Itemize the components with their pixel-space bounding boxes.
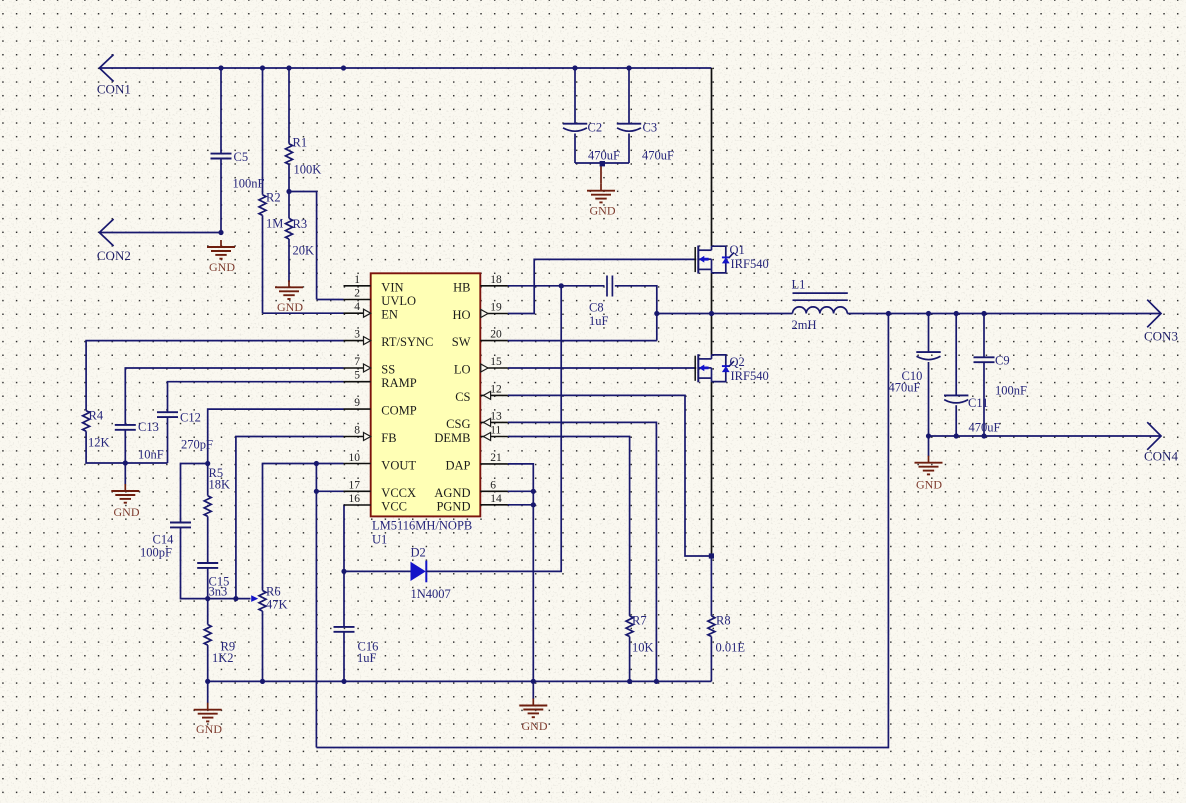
node DAP PGND bbox=[531, 502, 536, 507]
resistor R5 bbox=[204, 496, 211, 517]
svg-text:Q2: Q2 bbox=[730, 355, 745, 369]
svg-text:RAMP: RAMP bbox=[381, 376, 416, 390]
resistor R8 bbox=[708, 616, 715, 637]
svg-text:R1: R1 bbox=[293, 136, 308, 150]
node Q2 source R8 square bbox=[709, 553, 714, 558]
svg-text:10nF: 10nF bbox=[138, 448, 164, 462]
pin arrow SS bbox=[364, 364, 371, 372]
wire D2 cathode to HB bbox=[426, 286, 561, 572]
svg-text:7: 7 bbox=[354, 356, 360, 368]
resistor R9 bbox=[204, 625, 211, 646]
svg-text:DEMB: DEMB bbox=[434, 431, 470, 445]
capacitor C11 bbox=[944, 395, 968, 403]
port CON2 bbox=[99, 219, 113, 246]
svg-text:470uF: 470uF bbox=[642, 149, 674, 163]
port CON4 bbox=[1147, 422, 1161, 450]
wire DEMB net bbox=[508, 437, 630, 616]
wire RAMP net bbox=[168, 382, 344, 413]
pin names U1 bbox=[381, 280, 470, 513]
svg-text:15: 15 bbox=[490, 356, 502, 368]
svg-text:3n3: 3n3 bbox=[209, 585, 228, 599]
svg-text:19: 19 bbox=[490, 302, 502, 314]
node top rail junctions bbox=[218, 65, 223, 70]
capacitor C10 top wire bbox=[928, 314, 930, 353]
pin 17 VCCX bbox=[344, 490, 371, 492]
wire R6 bottom bbox=[262, 611, 264, 681]
svg-text:C14: C14 bbox=[153, 533, 175, 547]
svg-text:16: 16 bbox=[349, 493, 361, 505]
wire D2 anode bbox=[344, 570, 411, 572]
wire GND stem out bbox=[928, 436, 930, 456]
svg-text:GND: GND bbox=[196, 722, 222, 736]
svg-text:470uF: 470uF bbox=[889, 381, 921, 395]
capacitor C3 top wire bbox=[628, 68, 630, 124]
capacitor C9 bbox=[974, 357, 995, 362]
pin 4 EN bbox=[344, 312, 371, 314]
wiper arrow R6 bbox=[251, 595, 258, 602]
node rail AGND bbox=[531, 679, 536, 684]
svg-text:HO: HO bbox=[452, 308, 470, 322]
wire sense bottom bbox=[316, 314, 888, 748]
svg-text:R7: R7 bbox=[632, 614, 647, 628]
node GND left bbox=[123, 460, 128, 465]
svg-text:10: 10 bbox=[349, 452, 361, 464]
svg-text:R6: R6 bbox=[266, 585, 281, 599]
node C11 rail bbox=[954, 311, 959, 316]
pin 7 SS bbox=[344, 367, 371, 369]
svg-text:EN: EN bbox=[381, 308, 398, 322]
capacitor C12 bbox=[157, 412, 178, 417]
svg-text:20K: 20K bbox=[293, 244, 315, 258]
svg-text:GND: GND bbox=[209, 260, 235, 274]
wire COMP net bbox=[208, 409, 344, 463]
pin 13 CSG bbox=[480, 421, 508, 423]
pin arrow FB bbox=[364, 433, 371, 441]
svg-text:1N4007: 1N4007 bbox=[411, 587, 451, 601]
svg-text:R8: R8 bbox=[716, 614, 731, 628]
capacitor C14 bbox=[170, 523, 191, 528]
svg-text:9: 9 bbox=[354, 397, 360, 409]
svg-text:20: 20 bbox=[490, 329, 502, 341]
capacitor C10 bbox=[916, 352, 940, 360]
wire R3 bottom to GND bbox=[288, 239, 290, 282]
node rail CSG bbox=[654, 679, 659, 684]
svg-text:3: 3 bbox=[354, 329, 360, 341]
svg-text:47K: 47K bbox=[266, 598, 288, 612]
pin 9 COMP bbox=[344, 408, 371, 410]
svg-text:C5: C5 bbox=[234, 150, 249, 164]
svg-text:14: 14 bbox=[490, 493, 502, 505]
capacitor C16 bbox=[334, 627, 355, 632]
wire C11 bottom bbox=[955, 405, 957, 436]
pin 1 VIN bbox=[344, 285, 371, 287]
wire C9 bottom bbox=[983, 362, 985, 436]
node CON4 C10 bbox=[926, 433, 931, 438]
wire CSG net bbox=[508, 422, 657, 681]
svg-text:L1: L1 bbox=[792, 278, 806, 292]
wire GND left stem bbox=[124, 463, 126, 485]
transistor Q2 IRF540 bbox=[695, 354, 734, 382]
node sense rail bbox=[886, 311, 891, 316]
svg-text:21: 21 bbox=[490, 452, 502, 464]
svg-text:11: 11 bbox=[490, 425, 501, 437]
wire C3 bottom bbox=[628, 134, 630, 164]
resistor R6 potentiometer bbox=[259, 591, 266, 612]
wire SS net bbox=[125, 368, 343, 425]
wire VCC net down bbox=[343, 505, 346, 571]
svg-text:100nF: 100nF bbox=[233, 177, 265, 191]
svg-text:CSG: CSG bbox=[446, 417, 470, 431]
svg-text:1uF: 1uF bbox=[357, 651, 377, 665]
svg-text:18K: 18K bbox=[209, 478, 231, 492]
svg-text:CS: CS bbox=[455, 390, 470, 404]
svg-text:SW: SW bbox=[452, 335, 471, 349]
svg-text:C13: C13 bbox=[138, 420, 159, 434]
node rail R9 bbox=[205, 679, 210, 684]
svg-text:12: 12 bbox=[490, 383, 502, 395]
svg-text:1: 1 bbox=[354, 274, 360, 286]
svg-text:PGND: PGND bbox=[436, 499, 470, 513]
wire RT/SYNC net bbox=[86, 341, 343, 411]
wire EN net bbox=[263, 312, 344, 314]
wire R8 top bbox=[710, 556, 712, 616]
svg-text:RT/SYNC: RT/SYNC bbox=[381, 335, 433, 349]
capacitor C2 top wire bbox=[574, 68, 576, 124]
ground G7 output bbox=[915, 456, 943, 475]
pin arrow RT/SYNC bbox=[364, 337, 371, 345]
node FB C15 bbox=[205, 596, 210, 601]
capacitor C13 bbox=[115, 425, 136, 430]
svg-text:D2: D2 bbox=[411, 546, 426, 560]
wire VCCX net bbox=[316, 490, 343, 492]
wire R3 top bbox=[288, 192, 290, 219]
svg-text:GND: GND bbox=[522, 719, 548, 733]
resistor R1 bbox=[286, 144, 293, 165]
wire C14 bottom bbox=[181, 527, 251, 598]
node R1 R3 junction bbox=[286, 189, 291, 194]
node rail R6 bbox=[260, 679, 265, 684]
U1 pin stubs left bbox=[344, 286, 508, 505]
wire C16 top bbox=[343, 571, 345, 627]
capacitor C5 vertical top bbox=[220, 68, 222, 154]
pin 15 LO bbox=[480, 367, 508, 369]
node rail R7 bbox=[627, 679, 632, 684]
svg-text:VCCX: VCCX bbox=[381, 486, 416, 500]
wire C16 bottom bbox=[343, 632, 345, 682]
resistor R9 top wire bbox=[207, 599, 209, 625]
svg-text:1M: 1M bbox=[266, 217, 283, 231]
resistor R7 bbox=[626, 616, 633, 637]
capacitor C11 top wire bbox=[955, 314, 957, 396]
node C2 C3 GND square bbox=[600, 161, 605, 166]
ground G1 under C5 bbox=[207, 240, 235, 259]
pin 12 CS bbox=[480, 394, 508, 396]
resistor R2 bbox=[259, 195, 266, 216]
svg-text:4: 4 bbox=[354, 301, 360, 313]
pin arrow CS bbox=[483, 391, 490, 399]
pin 18 HB bbox=[480, 285, 508, 287]
svg-text:17: 17 bbox=[349, 479, 361, 491]
wire C12 bottom bbox=[167, 417, 169, 463]
svg-text:2: 2 bbox=[354, 288, 360, 300]
pin arrow HO bbox=[481, 310, 488, 318]
wire CS net bbox=[508, 395, 712, 556]
svg-text:AGND: AGND bbox=[434, 486, 470, 500]
svg-text:C2: C2 bbox=[588, 121, 603, 135]
svg-text:1K2: 1K2 bbox=[212, 651, 234, 665]
wire C13 bottom bbox=[124, 430, 126, 463]
pin 6 AGND bbox=[480, 490, 508, 492]
svg-text:VOUT: VOUT bbox=[381, 458, 416, 472]
svg-text:UVLO: UVLO bbox=[381, 294, 416, 308]
node SW C8 bbox=[654, 311, 659, 316]
svg-text:5: 5 bbox=[354, 370, 360, 382]
resistor R3 bbox=[286, 218, 293, 239]
pin 11 DEMB bbox=[480, 436, 508, 438]
pin 3 RT/SYNC bbox=[344, 340, 371, 342]
node C9 rail bbox=[981, 311, 986, 316]
pin 14 PGND bbox=[480, 504, 508, 506]
pin 5 RAMP bbox=[344, 381, 371, 383]
ground G3 under C2 C3 bbox=[587, 163, 615, 202]
svg-text:R3: R3 bbox=[293, 217, 308, 231]
svg-text:GND: GND bbox=[277, 300, 303, 314]
svg-text:U1: U1 bbox=[372, 533, 387, 547]
node C10 rail bbox=[926, 311, 931, 316]
svg-text:SS: SS bbox=[381, 363, 395, 377]
wire main rail right to CON3 bbox=[847, 313, 1161, 315]
node CON4 C9 bbox=[981, 433, 986, 438]
wire R9 bottom bbox=[207, 645, 209, 681]
capacitor C8 bbox=[606, 276, 608, 297]
node Q1 Q2 rail bbox=[709, 311, 714, 316]
svg-text:LO: LO bbox=[454, 363, 471, 377]
capacitor C2 bbox=[563, 124, 587, 132]
ground G2 under R3 bbox=[275, 280, 303, 299]
wire main SW rail left bbox=[657, 313, 793, 315]
pin arrow CSG bbox=[483, 418, 490, 426]
capacitor C5 bbox=[211, 154, 232, 159]
node D2 VCC bbox=[341, 569, 346, 574]
svg-text:C9: C9 bbox=[995, 354, 1010, 368]
pin numbers U1 bbox=[349, 274, 502, 505]
resistor R2 top wire bbox=[262, 68, 264, 195]
svg-text:1uF: 1uF bbox=[589, 314, 609, 328]
wire VOUT net bbox=[263, 464, 344, 591]
svg-text:LM5116MH/NOPB: LM5116MH/NOPB bbox=[372, 519, 472, 533]
svg-text:VCC: VCC bbox=[381, 500, 407, 514]
svg-text:470uF: 470uF bbox=[969, 421, 1001, 435]
wire R5 bottom to C15 bbox=[207, 516, 209, 563]
port CON3 bbox=[1147, 300, 1161, 328]
transistor Q2 leads bbox=[695, 314, 712, 557]
svg-text:12K: 12K bbox=[88, 436, 110, 450]
pin 20 SW bbox=[480, 340, 508, 342]
svg-text:100pF: 100pF bbox=[140, 546, 172, 560]
wire C10 bottom bbox=[928, 362, 930, 436]
wire SW net bbox=[508, 340, 657, 342]
svg-text:CON3: CON3 bbox=[1144, 329, 1178, 344]
capacitor C9 top wire bbox=[983, 314, 985, 358]
diode D2 bbox=[411, 286, 562, 583]
inductor L1 bbox=[793, 307, 848, 314]
wire R4 bottom bbox=[86, 431, 167, 463]
wire GND stem rail left bbox=[207, 681, 209, 703]
svg-text:270pF: 270pF bbox=[181, 438, 213, 452]
wire top rail VIN net bbox=[99, 67, 711, 69]
svg-text:2mH: 2mH bbox=[792, 318, 817, 332]
wire COMP node to C14 bbox=[181, 464, 208, 523]
resistor R1 top wire bbox=[288, 68, 290, 144]
node COMP bbox=[205, 461, 210, 466]
port CON1 bbox=[99, 55, 113, 82]
svg-text:C12: C12 bbox=[180, 411, 201, 425]
svg-text:C8: C8 bbox=[589, 301, 604, 315]
capacitor C3 bbox=[617, 124, 641, 132]
svg-text:18: 18 bbox=[490, 274, 502, 286]
wire R8 bottom bbox=[710, 637, 712, 682]
wire ground rail bottom bbox=[208, 680, 712, 682]
ground G5 rail left bbox=[194, 703, 222, 722]
svg-text:IRF540: IRF540 bbox=[731, 369, 769, 383]
svg-text:R2: R2 bbox=[266, 191, 281, 205]
node HB D2 bbox=[559, 283, 564, 288]
wire GND stem mid bbox=[532, 681, 534, 699]
svg-text:GND: GND bbox=[590, 204, 616, 218]
wire C2 C3 join bbox=[575, 162, 629, 164]
wire R1 to junction bbox=[288, 164, 290, 191]
transistor Q1 IRF540 bbox=[695, 246, 734, 274]
wire HB net bbox=[508, 285, 605, 287]
svg-text:470uF: 470uF bbox=[588, 149, 620, 163]
wire DAP net bbox=[508, 464, 533, 682]
svg-text:CON1: CON1 bbox=[97, 82, 131, 97]
wire AGND net bbox=[508, 490, 533, 492]
ground G4 left bbox=[111, 484, 139, 503]
node DAP AGND bbox=[531, 489, 536, 494]
pin 10 VOUT bbox=[344, 463, 371, 465]
resistor R5 top wire bbox=[207, 464, 209, 496]
node VCCX bbox=[314, 489, 319, 494]
pin 16 VCC bbox=[344, 504, 371, 506]
pin 8 FB bbox=[344, 436, 371, 438]
wire R2 bottom to EN bbox=[262, 215, 264, 313]
wire C2 bottom bbox=[574, 134, 576, 164]
svg-text:GND: GND bbox=[916, 478, 942, 492]
wire VOUT sense vertical bbox=[315, 464, 317, 748]
wire CON4 net bbox=[929, 435, 1162, 437]
node CON4 C11 bbox=[954, 433, 959, 438]
resistor R4 bbox=[83, 411, 90, 432]
wire C15 bottom bbox=[207, 568, 209, 599]
svg-text:CON4: CON4 bbox=[1144, 449, 1178, 464]
node CON2 C5 bbox=[218, 230, 223, 235]
op-amp U1 LM5116 body bbox=[371, 273, 481, 516]
wire PGND net bbox=[508, 504, 533, 506]
capacitor C5 vertical bottom bbox=[220, 159, 222, 233]
pin arrow EN bbox=[364, 309, 371, 317]
pin arrow DEMB bbox=[483, 433, 490, 441]
node rail C16 bbox=[341, 679, 346, 684]
pin 21 DAP bbox=[480, 463, 508, 465]
svg-text:HB: HB bbox=[453, 280, 470, 294]
wire node R1R3 to UVLO bbox=[289, 192, 317, 300]
wire R7 bottom bbox=[629, 637, 631, 682]
svg-text:COMP: COMP bbox=[381, 404, 416, 418]
wire FB net bbox=[236, 437, 344, 599]
wire HO to gate Q1 bbox=[508, 259, 695, 313]
svg-text:CON2: CON2 bbox=[97, 248, 131, 263]
capacitor C15 bbox=[197, 563, 218, 568]
pin 2 UVLO bbox=[344, 299, 371, 301]
node VOUT bbox=[314, 461, 319, 466]
svg-text:R4: R4 bbox=[89, 409, 104, 423]
svg-text:100K: 100K bbox=[294, 163, 322, 177]
svg-text:Q1: Q1 bbox=[730, 243, 745, 257]
pin 19 HO bbox=[480, 313, 508, 315]
svg-text:GND: GND bbox=[114, 505, 140, 519]
svg-text:10K: 10K bbox=[632, 641, 654, 655]
svg-text:IRF540: IRF540 bbox=[731, 257, 769, 271]
wire LO to gate Q2 bbox=[508, 367, 695, 369]
wire UVLO net bbox=[317, 299, 344, 301]
svg-text:8: 8 bbox=[354, 425, 360, 437]
svg-text:6: 6 bbox=[490, 479, 496, 491]
transistor Q1 leads bbox=[695, 68, 712, 314]
pin arrow LO bbox=[481, 364, 488, 372]
wire CON2 horizontal bbox=[99, 232, 221, 234]
svg-text:VIN: VIN bbox=[381, 280, 403, 294]
svg-text:FB: FB bbox=[381, 431, 396, 445]
wire C8 right to SW bbox=[615, 286, 657, 341]
svg-text:13: 13 bbox=[490, 410, 502, 422]
svg-text:DAP: DAP bbox=[445, 458, 470, 472]
ground G6 mid rail bbox=[519, 699, 547, 718]
svg-text:C11: C11 bbox=[968, 396, 988, 410]
svg-text:C3: C3 bbox=[643, 121, 658, 135]
svg-text:100nF: 100nF bbox=[995, 384, 1027, 398]
svg-text:0.01E: 0.01E bbox=[716, 641, 746, 655]
